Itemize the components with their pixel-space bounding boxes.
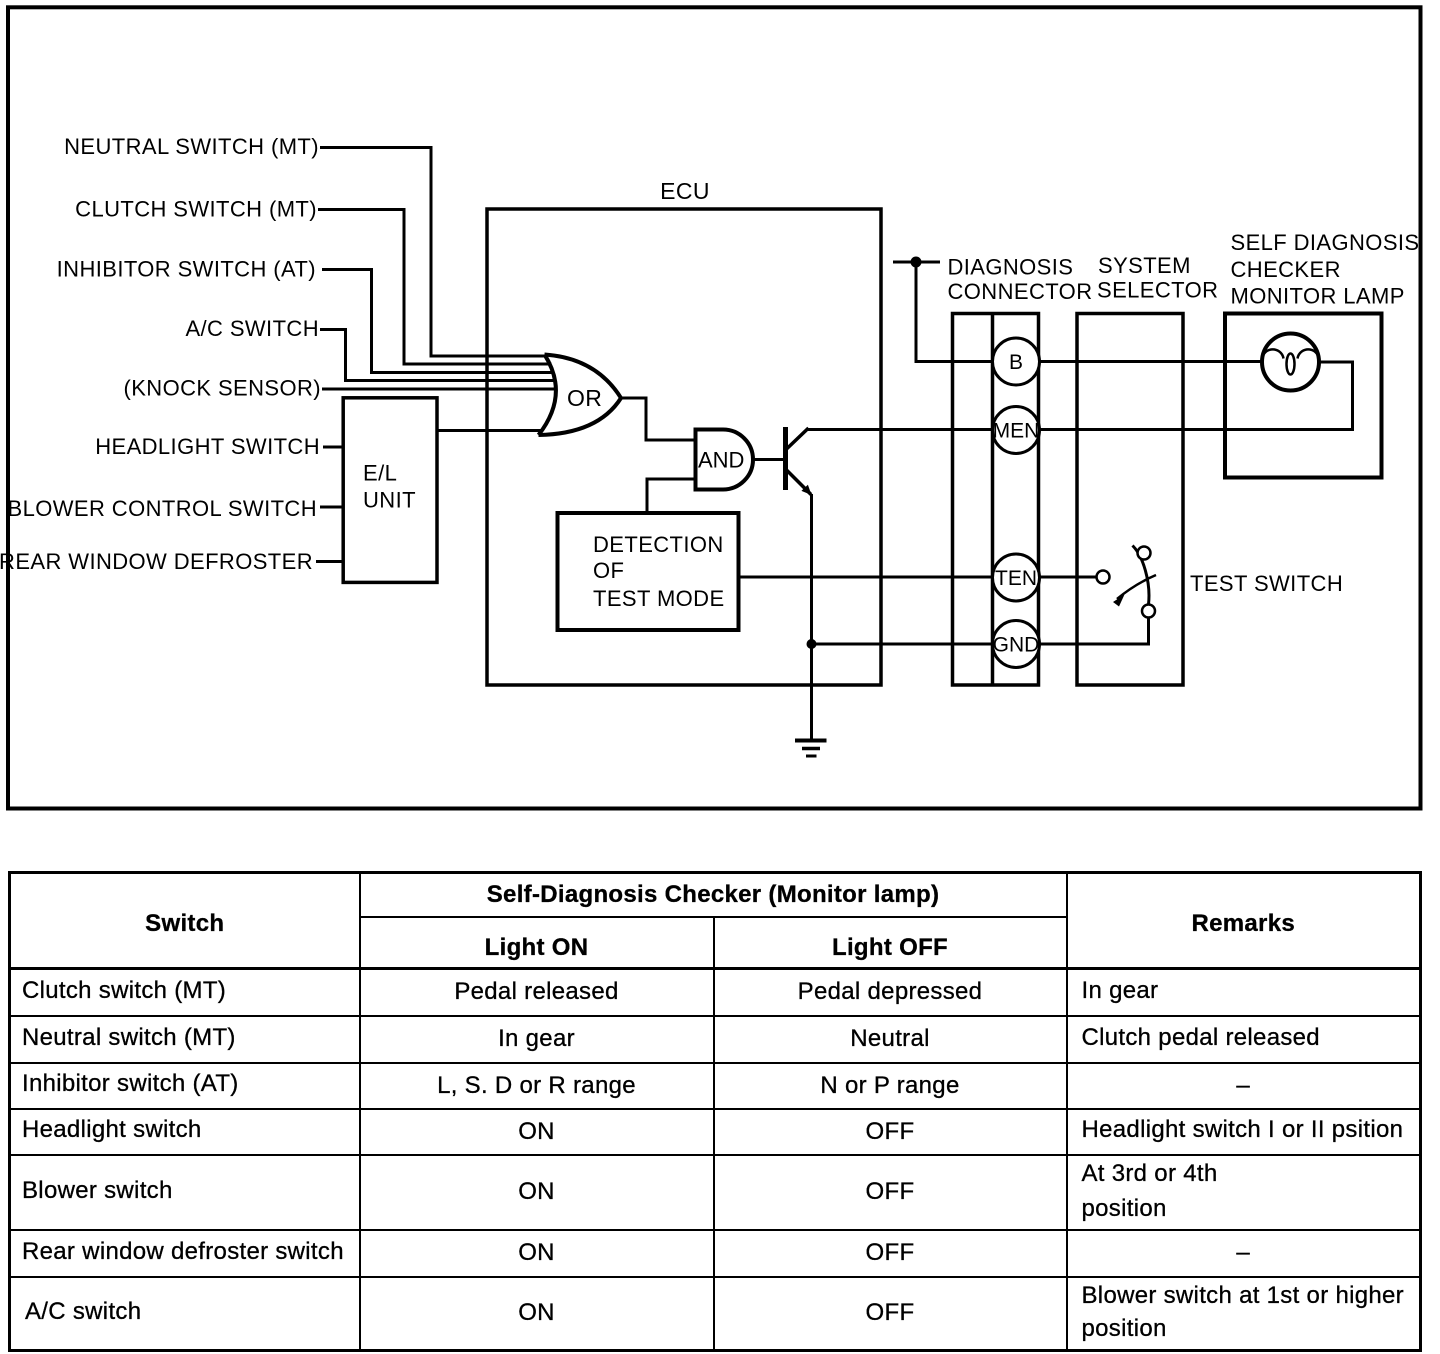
wire emitter junction to GND pin [812,643,993,646]
svg-text:DETECTION: DETECTION [593,532,724,557]
monitor lamp box [1225,314,1382,478]
pin B [993,338,1040,385]
node REAR WINDOW DEFROSTER label [0,549,313,574]
or-gate OR [539,355,622,436]
svg-text:REAR WINDOW DEFROSTER: REAR WINDOW DEFROSTER [0,549,313,574]
E/L unit box [343,398,437,583]
svg-text:AND: AND [698,448,744,473]
wire transistor collector to MEN pin [808,428,993,431]
svg-text:ECU: ECU [660,178,710,204]
transistor Q1 [786,427,812,495]
svg-text:B: B [1009,351,1023,374]
wire headlight switch to E/L unit [323,446,343,449]
node CLUTCH SWITCH (MT) label [75,197,317,222]
node NEUTRAL SWITCH (MT) label [64,134,319,159]
diagnosis connector box [953,314,1039,686]
wire clutch switch to OR gate [318,210,552,365]
wire knock sensor to OR gate [322,388,555,391]
wire OR gate output to AND gate [621,398,694,440]
label system selector [1097,253,1218,303]
wire E/L unit output to OR gate [437,429,543,432]
svg-text:A/C SWITCH: A/C SWITCH [185,316,319,341]
svg-text:GND: GND [993,634,1040,657]
label test switch [1190,571,1343,596]
wire TEN pin to test switch contact [1040,576,1096,579]
node BLOWER CONTROL SWITCH label [8,496,317,521]
svg-text:TEST SWITCH: TEST SWITCH [1190,571,1343,596]
node HEADLIGHT SWITCH label [95,434,320,459]
pin GND [993,621,1040,668]
wire inhibitor switch to OR gate [322,270,554,373]
wire blower control switch to E/L unit [320,506,343,509]
svg-text:SYSTEM: SYSTEM [1098,253,1191,278]
svg-text:SELECTOR: SELECTOR [1097,278,1218,303]
svg-text:UNIT: UNIT [363,488,416,513]
wire transistor emitter to ground [810,494,813,740]
detection of test mode box [558,513,739,630]
node (KNOCK SENSOR) label [123,376,321,401]
junction dot emitter/GND wire [807,639,817,649]
svg-text:E/L: E/L [363,461,397,486]
svg-text:TEN: TEN [995,567,1037,590]
wire AND gate output to transistor base [753,458,784,461]
svg-text:MEN: MEN [993,420,1040,443]
svg-text:CONNECTOR: CONNECTOR [948,279,1093,304]
wire B pin to monitor lamp [1040,360,1262,363]
svg-text:CHECKER: CHECKER [1231,257,1341,282]
border frame of schematic [8,7,1421,808]
wire neutral switch to OR gate [320,148,548,357]
system selector box [1077,314,1183,686]
svg-text:BLOWER CONTROL SWITCH: BLOWER CONTROL SWITCH [8,496,317,521]
wire detection box to TEN pin [739,576,993,579]
pin TEN [993,554,1040,601]
svg-text:HEADLIGHT SWITCH: HEADLIGHT SWITCH [95,434,320,459]
pin MEN [993,407,1040,454]
wire A/C switch to OR gate [320,330,555,381]
svg-text:INHIBITOR SWITCH (AT): INHIBITOR SWITCH (AT) [57,257,316,282]
node A/C SWITCH label [185,316,319,341]
svg-text:CLUTCH SWITCH (MT): CLUTCH SWITCH (MT) [75,197,317,222]
wire detection box to AND gate lower input [647,479,696,513]
svg-text:NEUTRAL SWITCH (MT): NEUTRAL SWITCH (MT) [64,134,319,159]
table: self-diagnosis checker states [8,871,1422,1352]
svg-text:OR: OR [567,385,602,411]
ECU box [487,178,881,685]
svg-text:TEST MODE: TEST MODE [593,586,725,611]
node INHIBITOR SWITCH (AT) label [57,257,316,282]
wire GND pin to test switch [1040,618,1149,644]
wire MEN pin to monitor lamp [1040,362,1353,430]
svg-text:OF: OF [593,558,624,583]
test switch S1 [1097,546,1157,618]
lamp L1 [1262,334,1319,391]
ground [795,741,827,757]
svg-text:SELF DIAGNOSIS: SELF DIAGNOSIS [1231,230,1420,255]
label self diagnosis checker monitor lamp [1231,230,1420,309]
label diagnosis connector [948,255,1093,305]
junction dot on B wire [911,257,922,268]
wire rear window defroster to E/L unit [316,560,343,563]
svg-text:(KNOCK SENSOR): (KNOCK SENSOR) [123,376,321,401]
svg-text:DIAGNOSIS: DIAGNOSIS [948,255,1074,280]
and-gate AND [696,430,754,490]
wire ECU to diagnosis connector B (battery feed) [893,262,992,362]
svg-text:MONITOR LAMP: MONITOR LAMP [1231,284,1405,309]
